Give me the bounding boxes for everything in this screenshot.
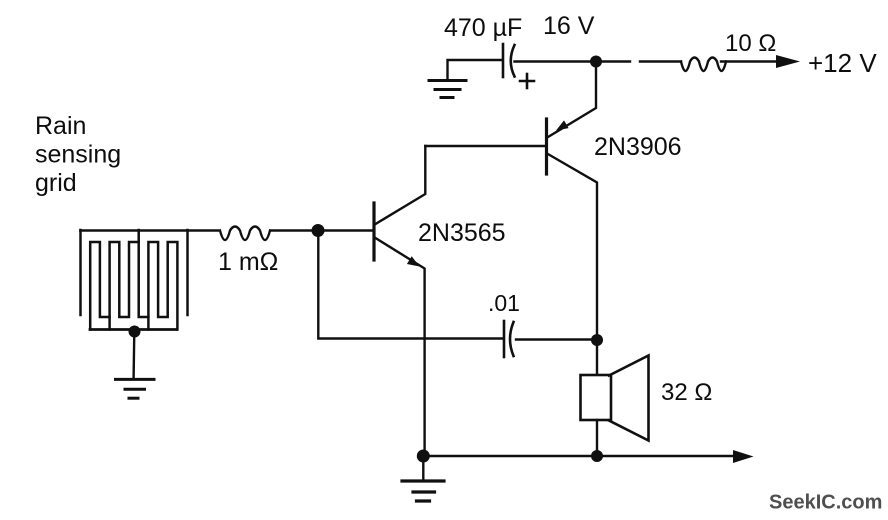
rail-speaker junction dot — [591, 450, 603, 462]
wire: Q2 base horizontal — [425, 145, 545, 147]
svg-text:2N3906: 2N3906 — [594, 133, 682, 161]
wire: base node down to .01 cap — [318, 231, 502, 339]
supply node junction dot — [590, 56, 602, 68]
speaker horn — [609, 356, 649, 441]
+12V arrowhead — [776, 55, 800, 68]
rail-emitter junction dot — [417, 450, 430, 463]
Q1 emitter wire with arrow — [376, 238, 425, 456]
svg-text:1 mΩ: 1 mΩ — [218, 248, 278, 276]
collector node junction dot — [591, 334, 603, 346]
svg-text:Rain: Rain — [35, 112, 86, 140]
bottom rail wire with arrow — [423, 455, 735, 457]
resistor 1 mOhm — [220, 227, 270, 241]
capacitor C1 470uF plates — [502, 44, 505, 77]
top-left ground riser wire — [448, 60, 503, 80]
wire: rail to center ground — [422, 456, 424, 480]
node A junction dot (base of 2N3565) — [312, 224, 325, 237]
svg-text:sensing: sensing — [35, 141, 121, 169]
rail arrowhead — [733, 450, 754, 463]
resistor 10 Ohm — [681, 58, 726, 72]
ground (under rain grid) — [116, 379, 155, 398]
svg-text:16 V: 16 V — [543, 12, 595, 40]
svg-text:grid: grid — [35, 169, 77, 197]
svg-text:2N3565: 2N3565 — [418, 219, 506, 247]
ground (top left, at 470uF) — [429, 81, 466, 98]
transistor Q2 2N3906 bar — [545, 119, 548, 174]
label: Rain sensing grid — [35, 112, 121, 197]
rain sensing grid electrode (comb) — [81, 230, 188, 330]
transistor Q1 2N3565 bar — [372, 203, 375, 260]
capacitor C2 .01 plates — [503, 321, 506, 357]
junction dot under grid — [129, 326, 141, 338]
wire: speaker to bottom rail — [596, 420, 598, 456]
wire: base node to Q1 base bar — [318, 229, 373, 231]
ground (bottom center) — [402, 481, 444, 501]
wire: C1 to supply node — [515, 60, 591, 62]
svg-text:32 Ω: 32 Ω — [661, 379, 712, 406]
Q2 emitter arrowhead — [556, 120, 569, 130]
wire: grid to ground — [132, 332, 135, 379]
Q1 emitter arrowhead — [407, 256, 420, 266]
svg-text:10 Ω: 10 Ω — [725, 30, 776, 57]
svg-text:+12 V: +12 V — [808, 48, 877, 78]
Q2 emitter wire from +V node — [548, 67, 596, 137]
wire to +12 V with arrow — [721, 60, 778, 62]
Q2 collector wire down — [547, 154, 597, 376]
wire: C2 to collector node — [516, 338, 591, 340]
wire: supply node toward 10 Ohm (with gap) — [602, 60, 630, 62]
Q1 collector wire (up to Q2 base) — [376, 146, 426, 224]
C1 plus sign — [520, 74, 534, 88]
svg-text:470 µF: 470 µF — [444, 14, 522, 42]
wire: grid top bar to resistor — [80, 229, 218, 231]
wire: resistor to base node — [271, 229, 319, 231]
svg-text:SeekIC.com: SeekIC.com — [769, 492, 882, 514]
svg-text:.01: .01 — [488, 290, 520, 316]
speaker rectangle — [581, 375, 612, 420]
